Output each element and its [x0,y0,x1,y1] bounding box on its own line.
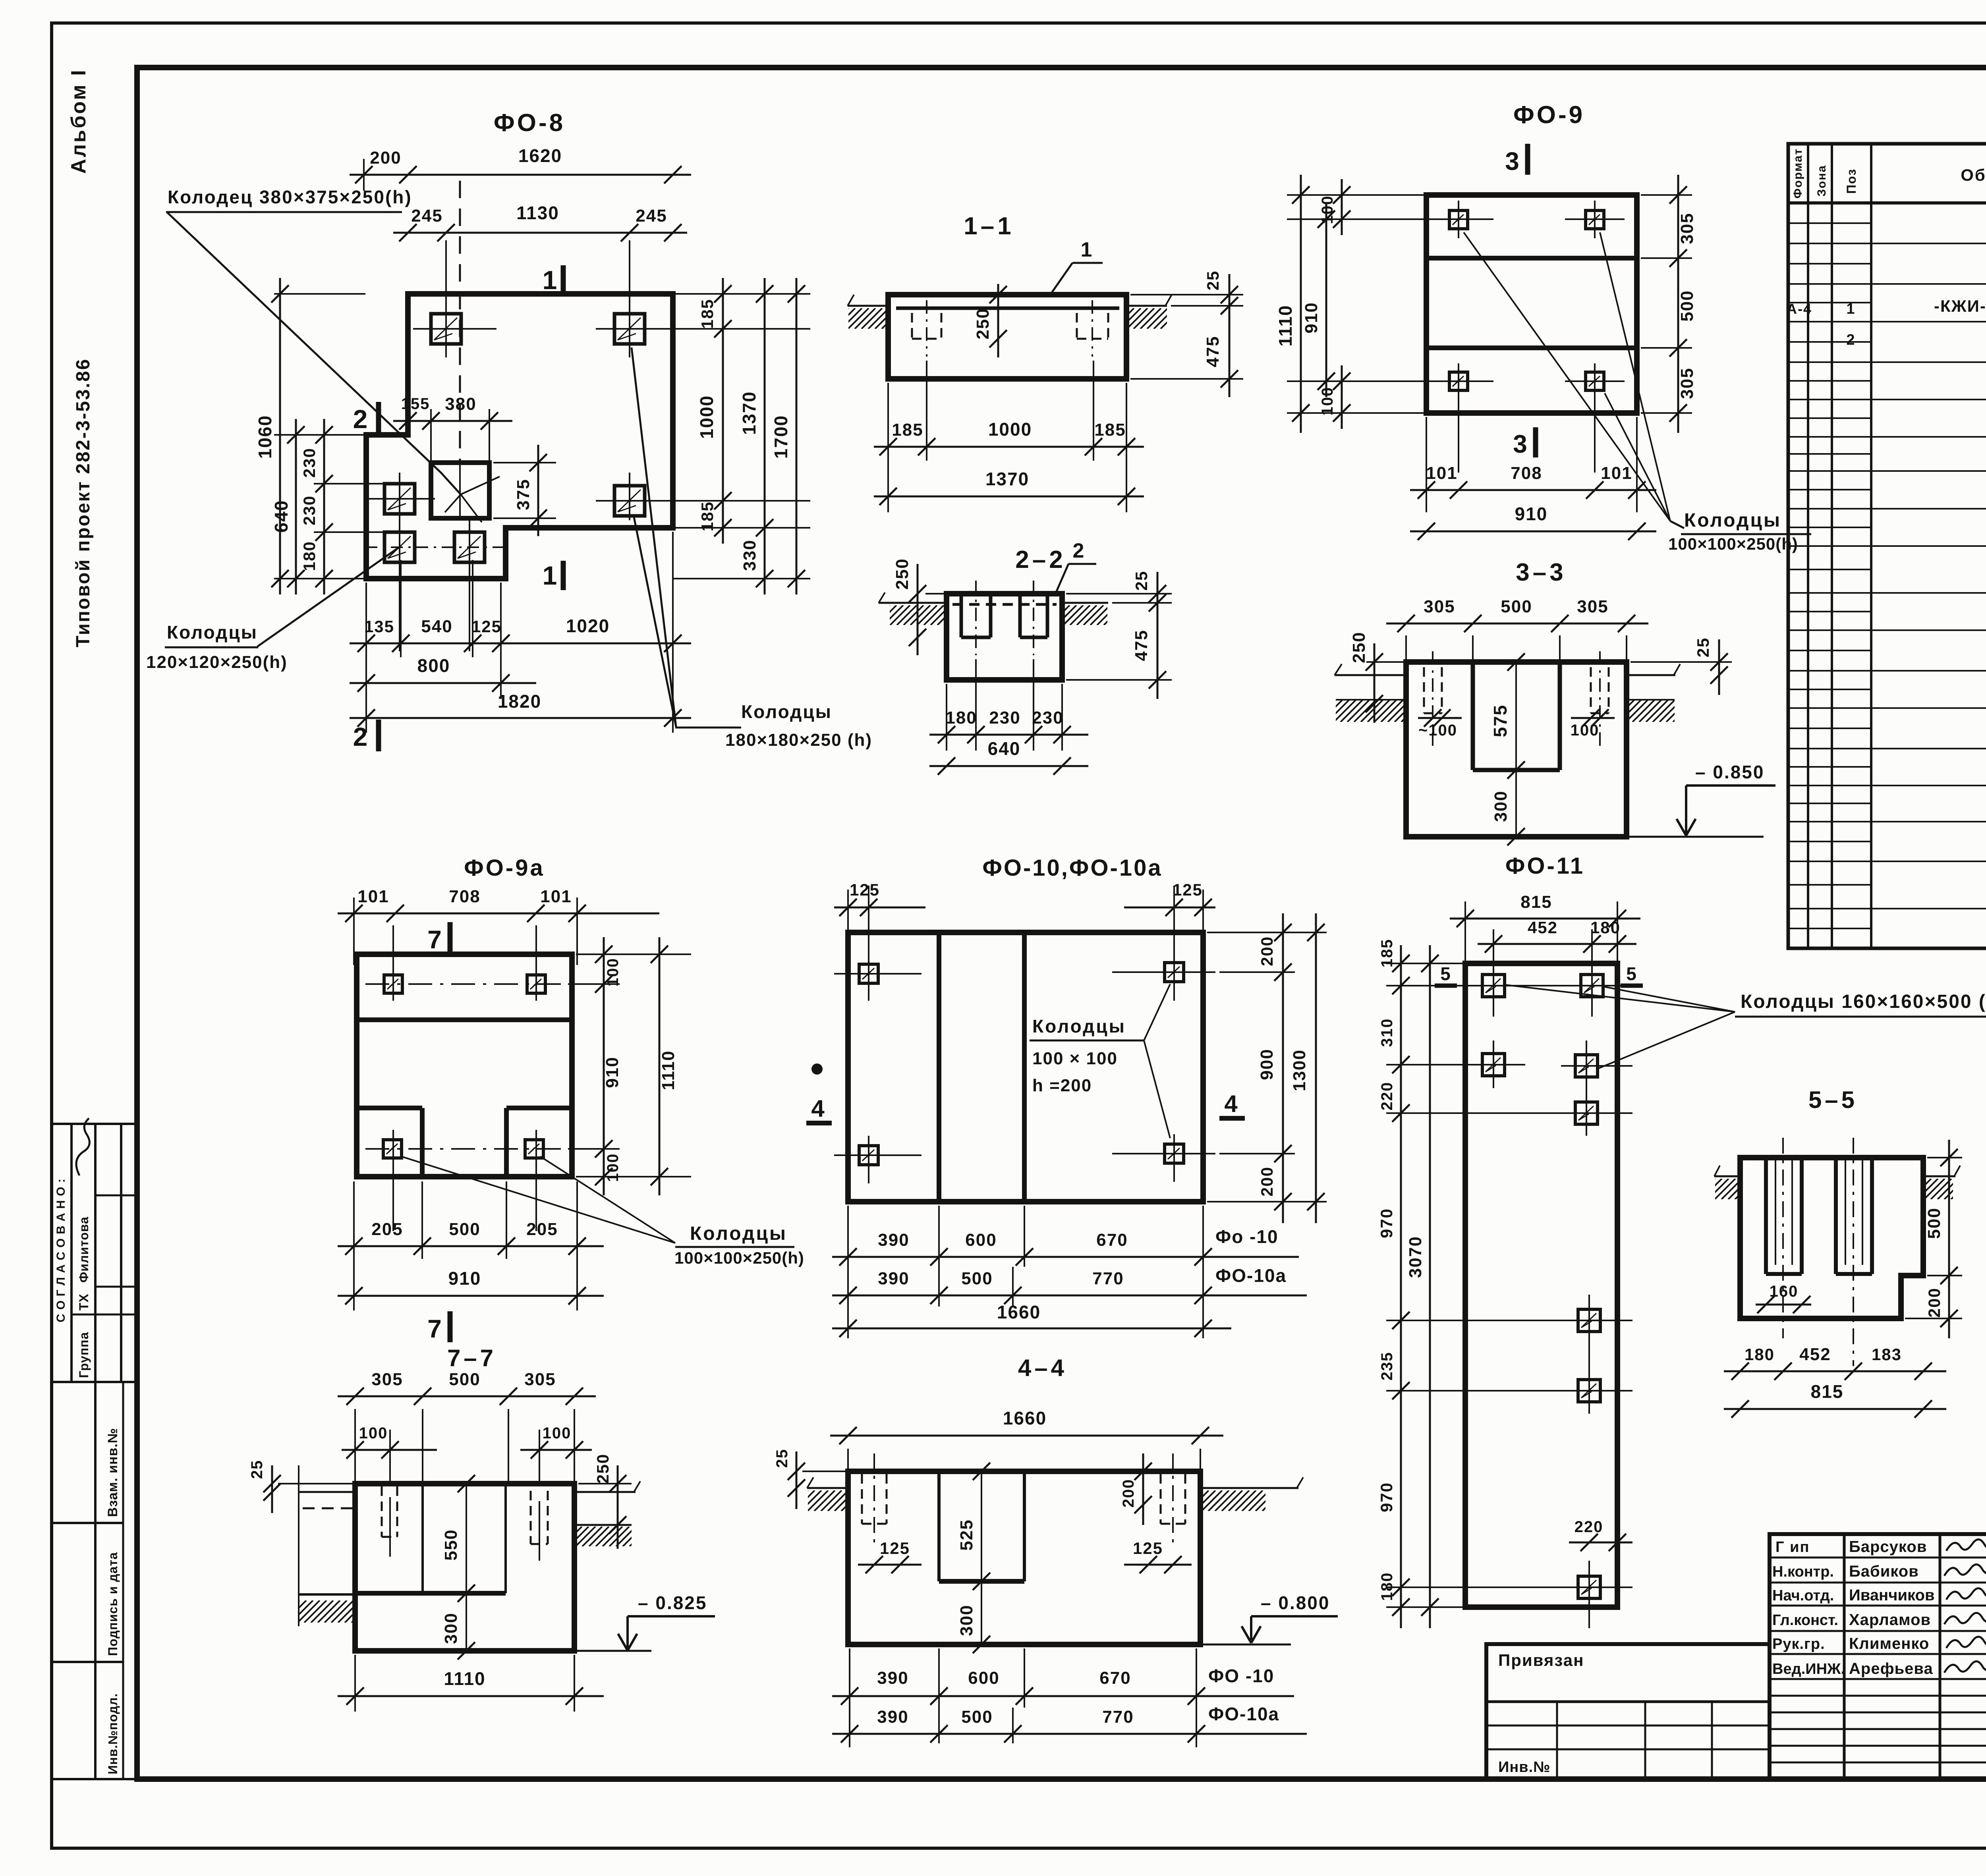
svg-text:1130: 1130 [516,203,559,223]
4-4 ground hatch right [1181,1490,1283,1511]
slot wells 2-2 [960,594,963,637]
svg-text:h =200: h =200 [1032,1076,1092,1095]
ground line right 1-1 [1126,305,1167,307]
FO-8 dim 375 big well [493,462,556,463]
FO-8 dim 1820 [350,717,691,719]
svg-text:3: 3 [1505,147,1520,176]
centerlines slots 2-2 [975,581,977,655]
svg-text:452: 452 [1799,1345,1831,1364]
FO-11 left dims [1386,963,1465,964]
svg-text:200: 200 [1258,1166,1276,1197]
svg-text:101: 101 [1601,463,1632,483]
FO-10 interior vertical lines [937,932,941,1202]
section 5-5 body [1740,1158,1923,1318]
svg-text:125: 125 [471,617,502,636]
svg-text:3: 3 [1513,430,1528,458]
svg-text:770: 770 [1102,1707,1134,1727]
svg-text:310: 310 [1378,1018,1396,1047]
svg-text:380: 380 [445,394,476,414]
4-4 ground hatch left [787,1490,862,1511]
well F mid-low [454,532,485,562]
7-7 ground hatch left [277,1600,374,1623]
ground hatch left 3-3 [1314,700,1424,722]
dim 300 bottom 3-3 [1515,770,1517,837]
svg-text:200: 200 [1120,1479,1137,1508]
svg-text:390: 390 [877,1668,908,1688]
svg-text:160: 160 [1770,1283,1799,1300]
4-4 bottom dim rows [849,1648,850,1747]
svg-text:Взам. инв.№: Взам. инв.№ [105,1428,120,1517]
svg-text:ФО-10а: ФО-10а [1208,1704,1279,1724]
svg-text:4–4: 4–4 [1018,1355,1067,1381]
centerlines FO-8 wells [413,328,496,330]
FO-10 right dims 200/900/200/1300 [1207,932,1327,933]
dim 250 section 1-1 [997,284,999,357]
3-3 cavity [1471,662,1475,770]
FO-9 centerlines [1434,218,1493,220]
ground hatch right 2-2 [1043,605,1124,625]
svg-text:1700: 1700 [771,415,791,459]
svg-text:2: 2 [1073,539,1085,562]
section 3-3 body [1406,662,1627,837]
svg-text:525: 525 [957,1519,976,1550]
FO-9 dim 910 bottom [1410,531,1656,533]
svg-text:1620: 1620 [518,145,562,166]
svg-text:4: 4 [1224,1090,1238,1117]
3-3 top dims 305/500/305 [1405,635,1407,662]
FO-9 right dims 305/500/305 [1641,194,1692,196]
staff signatures [1946,1539,1986,1551]
svg-text:Фо -10: Фо -10 [1215,1226,1279,1247]
FO-11 dim 220 bottom [1569,1542,1632,1544]
dims 185/1000/185 bottom 1-1 [887,383,889,461]
7-7 dashed well left [381,1486,383,1537]
section mark 4 left [811,1063,823,1075]
svg-text:815: 815 [1520,892,1552,912]
svg-text:С О Г Л А С О В А Н О :: С О Г Л А С О В А Н О : [54,1178,68,1322]
sidebar cell: Взам. инв. № [94,1382,97,1779]
svg-text:300: 300 [441,1612,461,1644]
svg-text:180: 180 [1745,1345,1775,1364]
FO-11 dim 3070 [1429,945,1431,1628]
FO-10 dim 125 right [1173,886,1175,969]
svg-text:Инв.№подл.: Инв.№подл. [106,1693,120,1774]
svg-text:185: 185 [1378,939,1396,968]
dim ~100 left 3-3 [1418,717,1462,719]
well centerlines 3-3 [1432,651,1433,747]
svg-text:475: 475 [1203,336,1223,367]
svg-text:1: 1 [543,265,558,295]
svg-text:500: 500 [961,1707,993,1727]
svg-text:500: 500 [1501,597,1532,616]
Привязан box [1486,1644,1770,1779]
svg-text:4: 4 [811,1095,825,1122]
svg-text:3–3: 3–3 [1516,559,1566,586]
svg-text:Колодцы: Колодцы [690,1223,787,1244]
svg-text:25: 25 [1132,571,1151,591]
5-5 dim 815 [1724,1408,1946,1410]
svg-text:390: 390 [878,1230,909,1250]
svg-text:245: 245 [636,206,667,226]
svg-text:800: 800 [417,655,450,676]
svg-text:230: 230 [989,708,1020,728]
svg-text:390: 390 [878,1269,909,1288]
svg-text:Нач.отд.: Нач.отд. [1772,1587,1834,1604]
FO-10 wells [859,964,878,983]
section 2-2 body [947,594,1062,680]
svg-text:1660: 1660 [1003,1408,1047,1428]
FO-9a centerlines [365,983,564,985]
dim row 245/1130/245 [393,232,687,234]
svg-text:185: 185 [892,420,923,440]
svg-text:101: 101 [1426,463,1457,483]
svg-text:155: 155 [401,395,430,413]
svg-text:910: 910 [448,1268,481,1289]
ground line left 2-2 [879,602,947,604]
well D left [384,484,415,514]
svg-text:2: 2 [1846,332,1855,348]
elevation -0.850 [1627,836,1764,838]
svg-text:220: 220 [1378,1082,1396,1111]
section 1-1 body [888,295,1126,379]
7-7 dim 300 [466,1593,467,1651]
svg-text:Иванчиков: Иванчиков [1849,1586,1935,1604]
svg-text:Колодцы: Колодцы [1684,510,1781,531]
sidebar cell: Подписи и дата [52,1661,123,1663]
svg-text:550: 550 [441,1529,461,1560]
elevation -0.800 4-4 [1200,1644,1291,1646]
4-4 top dim 1660 [847,1449,849,1471]
well A top-left 245 [431,314,461,344]
FO-9a notch right [506,1106,572,1110]
svg-text:1820: 1820 [498,691,541,712]
dim 1700 right [796,278,798,594]
svg-text:185: 185 [698,299,717,329]
dims 180/230/230 bottom 2-2 [946,684,947,751]
FO-9 left dims 1110/910/100/100 [1287,194,1426,196]
svg-text:ФО -10: ФО -10 [1208,1666,1274,1686]
svg-text:Группа: Группа [77,1332,91,1378]
svg-text:Гл.конст.: Гл.конст. [1772,1612,1838,1629]
dim ~100 right 3-3 [1571,717,1615,719]
FO-11 wells column [1482,975,1505,997]
plan FO-11 outline [1465,963,1617,1607]
dim 250 left 2-2 [925,593,947,594]
ground line right 3-3 [1627,674,1675,676]
sidebar table: Согласовано block [52,1123,137,1125]
ground hatch left 2-2 [870,605,964,625]
svg-text:708: 708 [449,887,480,906]
svg-text:Филитова: Филитова [77,1216,91,1283]
plan FO-9a outline [357,954,572,1177]
svg-text:330: 330 [740,539,759,571]
svg-text:~100: ~100 [1418,722,1457,739]
FO-9a dim 910 bottom [338,1295,604,1297]
7-7 dim 25 left [271,1465,273,1513]
svg-text:305: 305 [1424,597,1455,616]
svg-text:910: 910 [1515,504,1548,524]
svg-text:2–2: 2–2 [1015,546,1066,573]
svg-text:5–5: 5–5 [1808,1087,1858,1113]
svg-text:3070: 3070 [1406,1236,1425,1278]
svg-text:ТХ: ТХ [77,1293,91,1310]
svg-text:1110: 1110 [444,1668,485,1689]
section 1-1 mesh line [896,307,1119,310]
svg-text:7: 7 [427,1314,442,1343]
svg-text:100×100×250(h): 100×100×250(h) [1668,535,1798,553]
7-7 ground hatch right [555,1527,649,1546]
FO-9a wells [384,975,402,993]
svg-text:Арефьева: Арефьева [1849,1660,1933,1677]
ground hatch left 1-1 [828,308,902,329]
svg-text:250: 250 [593,1453,612,1484]
staff table frame [1770,1534,1986,1779]
svg-text:Харламов: Харламов [1849,1611,1931,1629]
FO-9a notch left [357,1106,422,1110]
svg-text:101: 101 [540,887,572,906]
svg-text:235: 235 [1378,1352,1396,1381]
svg-text:910: 910 [1302,302,1321,333]
FO-9 wells [1449,210,1468,229]
svg-text:Альбом I: Альбом I [67,68,90,174]
ground line left 1-1 [848,305,888,307]
svg-text:5: 5 [1626,963,1637,984]
elevation -0.825 [574,1650,651,1652]
svg-text:100: 100 [604,1153,622,1182]
FO-8 dim 800 [350,682,536,684]
svg-text:1: 1 [1081,238,1093,261]
svg-text:815: 815 [1811,1381,1844,1402]
FO-11 dims 452/180 top [1493,929,1494,963]
5-5 ground hatch right [1904,1179,1972,1199]
svg-text:230: 230 [300,448,319,478]
7-7 dim 250 right [617,1465,619,1549]
svg-text:245: 245 [411,206,442,226]
svg-text:500: 500 [1924,1207,1944,1239]
svg-text:Типовой проект 282-3-53.86: Типовой проект 282-3-53.86 [73,358,94,647]
dim 575 cavity 3-3 [1515,662,1517,770]
4-4 dim 200 right well [1142,1453,1144,1525]
svg-text:Колодец 380×375×250(h): Колодец 380×375×250(h) [168,187,412,207]
svg-text:А-4: А-4 [1787,301,1812,317]
svg-text:600: 600 [965,1230,997,1250]
svg-text:Г ип: Г ип [1775,1539,1810,1556]
svg-text:500: 500 [449,1370,480,1389]
FO-9a leader Колодцы [401,1156,675,1243]
svg-text:305: 305 [1677,367,1697,399]
FO-9 interior band lines [1426,256,1637,261]
svg-text:452: 452 [1528,918,1558,937]
4-4 dim 300 [981,1581,982,1644]
svg-text:600: 600 [968,1668,999,1688]
4-4 ground right [1200,1487,1298,1489]
svg-text:ФО-11: ФО-11 [1505,853,1585,879]
svg-text:200: 200 [370,148,401,168]
svg-text:670: 670 [1096,1230,1128,1250]
FO-10 bottom dim rows [847,1206,849,1338]
svg-text:125: 125 [1173,880,1203,899]
svg-text:2: 2 [353,404,369,434]
svg-text:-КЖИ-57.00.0: -КЖИ-57.00.0 [1934,297,1986,315]
svg-text:7: 7 [427,925,442,954]
svg-text:640: 640 [988,738,1021,759]
well E left-low [384,532,415,562]
svg-text:970: 970 [1377,1482,1396,1512]
dashed wells 3-3 [1423,667,1425,713]
svg-text:250: 250 [1349,631,1369,663]
svg-text:100 × 100: 100 × 100 [1032,1049,1118,1068]
svg-text:305: 305 [1677,212,1697,244]
svg-text:220: 220 [1575,1518,1603,1536]
7-7 ground right [574,1491,636,1493]
svg-text:708: 708 [1511,463,1542,483]
FO-9a interior band line [357,1017,572,1022]
svg-text:230: 230 [300,495,319,525]
svg-text:540: 540 [421,617,452,636]
svg-text:Н.контр.: Н.контр. [1772,1563,1834,1580]
7-7 top dims 305/500/305 [354,1409,356,1484]
plan FO-10 outline [848,932,1203,1202]
svg-text:1060: 1060 [255,415,275,459]
FO-9a right dims 100/910/100 [576,953,691,955]
dims 230/230/180 left [323,419,325,594]
dims 1370/330 right [764,278,766,594]
dim 640 left [295,419,297,594]
svg-text:1: 1 [1846,301,1855,317]
7-7 dashed well right [530,1491,532,1544]
svg-text:ФО-10,ФО-10а: ФО-10,ФО-10а [982,855,1162,881]
ground line left 3-3 [1335,674,1406,676]
svg-text:205: 205 [371,1220,403,1239]
svg-text:25: 25 [248,1460,266,1479]
svg-text:100: 100 [359,1424,388,1442]
svg-text:Инв.№: Инв.№ [1498,1759,1551,1776]
svg-text:250: 250 [973,308,993,339]
dims 185/1000/185 right [673,293,810,295]
svg-text:183: 183 [1872,1345,1902,1364]
svg-text:125: 125 [1133,1539,1163,1558]
dashed centerline big well [459,181,461,463]
mesh dashed line 2-2 [952,603,1057,606]
svg-text:– 0.800: – 0.800 [1261,1592,1330,1613]
7-7 dim 550 [466,1484,467,1593]
ground line right 2-2 [1062,602,1108,604]
svg-text:– 0.825: – 0.825 [638,1592,707,1613]
svg-text:1660: 1660 [997,1302,1041,1322]
svg-text:185: 185 [698,501,717,531]
dims 25 right 3-3 [1631,661,1732,663]
FO-9 leader Колодцы 100х100х250(h) [1464,232,1670,521]
svg-text:1370: 1370 [985,469,1029,489]
svg-text:Колодцы 160×160×500 (h): Колодцы 160×160×500 (h) [1741,991,1986,1012]
svg-text:25: 25 [1694,637,1712,658]
svg-text:305: 305 [1577,597,1608,616]
dim 1060 left [279,278,281,594]
svg-text:25: 25 [1204,270,1222,291]
svg-text:– 0.850: – 0.850 [1695,762,1764,782]
svg-text:500: 500 [961,1269,993,1288]
FO-11 well centerlines [1470,985,1632,986]
5-5 slot centerlines [1782,1138,1784,1338]
5-5 ground right [1923,1175,1955,1177]
4-4 notch [937,1471,941,1581]
svg-text:670: 670 [1099,1668,1131,1688]
svg-text:475: 475 [1132,629,1151,661]
svg-text:300: 300 [957,1604,976,1636]
svg-text:200: 200 [1925,1287,1943,1318]
svg-text:7–7: 7–7 [447,1345,496,1371]
svg-text:Клименко: Клименко [1849,1635,1929,1652]
svg-text:1300: 1300 [1290,1049,1309,1091]
svg-text:Вед.ИНЖ.: Вед.ИНЖ. [1772,1661,1845,1677]
FO-8 bottom dims 135/540/125/1020 [365,583,367,733]
svg-text:1–1: 1–1 [964,212,1014,240]
plan FO-9 outline [1426,195,1637,413]
svg-text:Обозначение: Обозначение [1961,166,1986,184]
svg-text:Рук.гр.: Рук.гр. [1772,1636,1825,1652]
dims 25/475 right 1-1 [1130,294,1243,295]
FO-11 leader Колодцы 160х160х500(h) [1505,985,1735,1012]
svg-text:100: 100 [1571,722,1600,739]
svg-text:300: 300 [1491,790,1511,822]
svg-text:5: 5 [1440,963,1451,984]
well C right-mid [614,486,645,516]
svg-text:185: 185 [1094,420,1126,440]
svg-text:900: 900 [1257,1048,1277,1080]
FO-9 bottom dims 101/708/101 [1426,417,1427,512]
5-5 ground hatch left [1694,1179,1756,1199]
section 4-4 body [848,1471,1200,1644]
ground hatch right 1-1 [1107,308,1181,329]
5-5 slot 2 [1834,1158,1838,1274]
svg-text:Колодцы: Колодцы [167,622,258,643]
dashed well left 1-1 [911,313,913,339]
svg-text:135: 135 [364,617,394,636]
svg-text:305: 305 [371,1370,403,1389]
5-5 ground left [1714,1175,1740,1177]
5-5 right dims 500/200 [1927,1157,1962,1158]
svg-text:Колодцы: Колодцы [1032,1016,1126,1036]
svg-text:1000: 1000 [696,395,717,439]
ground hatch right 3-3 [1605,700,1695,722]
svg-text:Формат: Формат [1791,148,1804,199]
dim 250 left 3-3 [1374,643,1376,723]
FO-11 dim 815 top [1464,901,1466,963]
svg-text:910: 910 [603,1056,622,1088]
dims 25/475 right 2-2 [1066,593,1172,594]
svg-text:180×180×250 (h): 180×180×250 (h) [725,730,872,750]
svg-text:500: 500 [1677,290,1697,321]
svg-text:ФО-8: ФО-8 [494,109,565,137]
svg-text:1370: 1370 [739,391,759,435]
svg-text:ФО-9а: ФО-9а [464,855,545,881]
svg-text:1020: 1020 [566,616,610,636]
svg-text:970: 970 [1377,1208,1396,1238]
svg-text:100: 100 [1319,387,1336,416]
svg-text:125: 125 [850,880,880,899]
svg-text:770: 770 [1092,1269,1124,1288]
4-4 dim 125 right [1124,1564,1192,1566]
svg-text:Поз: Поз [1844,168,1858,194]
svg-text:230: 230 [1032,708,1063,728]
centerlines wells 1-1 [926,300,927,357]
dim row 200/1620 [350,174,691,176]
4-4 dim 525 [981,1471,982,1581]
svg-text:180: 180 [300,541,319,571]
5-5 slot 1 [1764,1158,1768,1274]
svg-text:ФО-10а: ФО-10а [1215,1265,1287,1286]
svg-text:180: 180 [1378,1572,1396,1601]
